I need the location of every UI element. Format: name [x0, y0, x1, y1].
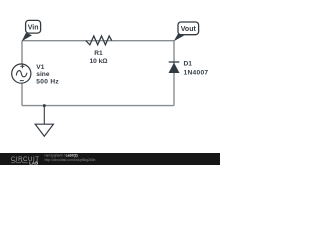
sine glyph — [16, 71, 27, 77]
wire: right vertical through diode — [173, 41, 175, 106]
node junction dot on bottom net — [43, 104, 46, 107]
svg-text:500 Hz: 500 Hz — [36, 79, 59, 86]
svg-text:LAB: LAB — [29, 160, 38, 165]
wire: bottom net — [22, 105, 174, 107]
svg-text:R1: R1 — [94, 50, 103, 57]
svg-text:ramzyghanii / Lab7(2): ramzyghanii / Lab7(2) — [45, 154, 78, 158]
watermark bar — [0, 153, 220, 165]
svg-text:http://circuitlab.com/cskpf6kg: http://circuitlab.com/cskpf6kg2k5b — [45, 158, 96, 162]
+ polarity mark — [20, 64, 24, 68]
node flag Vout — [174, 22, 199, 41]
wire: left vertical from Vin corner to V1 and down — [21, 41, 23, 106]
svg-text:10 kΩ: 10 kΩ — [89, 58, 108, 65]
watermark logo waveform — [11, 161, 28, 163]
svg-text:1N4007: 1N4007 — [184, 70, 209, 77]
wire: top net Vin->R1->Vout — [22, 40, 174, 42]
svg-text:D1: D1 — [184, 61, 193, 68]
voltage source V1 — [12, 64, 31, 83]
- polarity mark — [20, 80, 24, 82]
svg-text:Vin: Vin — [28, 24, 39, 31]
resistor R1 — [86, 36, 112, 45]
svg-text:V1: V1 — [36, 64, 44, 71]
svg-text:sine: sine — [36, 71, 50, 78]
node flag Vin — [22, 20, 41, 41]
svg-text:Vout: Vout — [181, 26, 197, 33]
diode D1 — [169, 62, 180, 73]
ground — [35, 106, 53, 137]
